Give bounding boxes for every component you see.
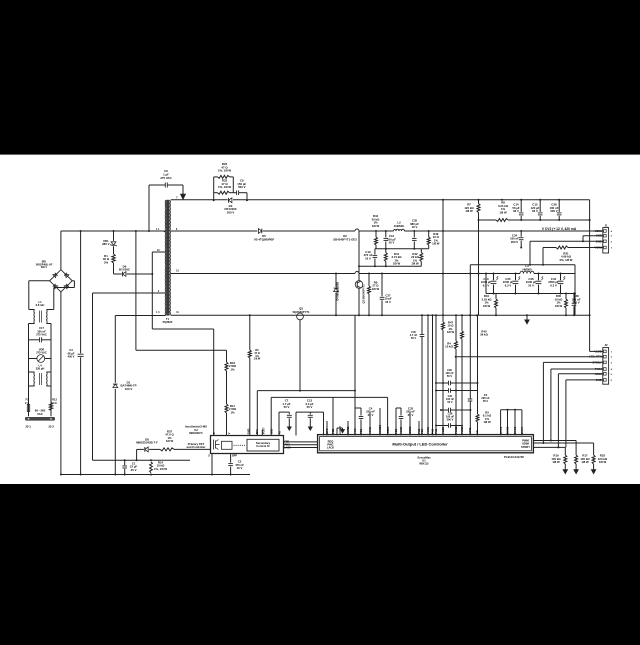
svg-text:J3-2: J3-2 bbox=[48, 424, 54, 428]
svg-text:CS: CS bbox=[475, 430, 479, 434]
wire: PWM net bbox=[550, 369, 603, 442]
svg-text:LACK: LACK bbox=[327, 445, 334, 449]
connector J3 input terminal block bbox=[25, 417, 55, 428]
capacitor C27 bbox=[380, 274, 392, 316]
svg-text:DCC3: DCC3 bbox=[513, 426, 517, 434]
wire: transformer pin2 return bbox=[93, 293, 165, 460]
wire: VLED feed from top rail bbox=[589, 200, 603, 352]
wire: LED_RTN to controller bbox=[455, 356, 603, 358]
svg-text:VCX3: VCX3 bbox=[426, 426, 430, 433]
svg-text:PGND: PGND bbox=[454, 426, 458, 434]
snubber capacitor C9 bbox=[213, 179, 248, 202]
wire: J1 GND feeds bbox=[530, 236, 603, 265]
resistor R49 bbox=[427, 231, 440, 249]
wire: filter middle rail bbox=[375, 248, 429, 250]
snubber resistor R22 bbox=[214, 162, 234, 200]
bulk capacitor C3 bbox=[68, 230, 84, 475]
zener D4 bbox=[334, 274, 340, 316]
svg-text:FB3: FB3 bbox=[420, 428, 424, 433]
capacitor C10 bbox=[481, 274, 498, 294]
connector J2 bbox=[589, 343, 613, 384]
svg-text:BPP: BPP bbox=[232, 455, 237, 458]
resistor R11 bbox=[225, 404, 237, 436]
IC U2 InnoSwitch3-MX bbox=[185, 425, 283, 458]
wire: J2 GND net bbox=[566, 380, 603, 448]
resistor R35 bbox=[555, 294, 568, 316]
wire: bridge + output to DC bus bbox=[60, 231, 62, 270]
capacitor C45 bbox=[410, 330, 425, 340]
ground symbol on secondary rail bbox=[525, 315, 530, 324]
capacitor C35 bbox=[410, 219, 419, 249]
common-mode choke L4 bbox=[29, 364, 52, 386]
wire: filter bottom tie bbox=[358, 265, 421, 267]
svg-text:AGND: AGND bbox=[338, 426, 342, 434]
svg-text:Primary FETand Controller: Primary FETand Controller bbox=[186, 442, 206, 449]
resistor R12 bbox=[49, 398, 57, 411]
resistor R1 bbox=[103, 254, 115, 274]
resistor R4 bbox=[445, 315, 457, 435]
wire: U2 source pin to ground rail bbox=[211, 454, 213, 475]
resistor R19 with ground bbox=[551, 447, 567, 473]
svg-text:D: D bbox=[213, 432, 216, 434]
svg-text:SGND: SGND bbox=[346, 426, 350, 434]
svg-text:CTRL: CTRL bbox=[468, 426, 472, 433]
wire: U2 to U1 feedback links bbox=[284, 442, 318, 450]
wire: ADIM net bbox=[557, 374, 602, 449]
wire: lower bias rail bbox=[93, 459, 191, 461]
svg-text:VCK3: VCK3 bbox=[594, 229, 602, 233]
diode D8 bbox=[136, 437, 160, 460]
resistor R9 bbox=[368, 274, 380, 316]
wire: controller top pin comb bbox=[257, 315, 419, 435]
svg-text:GND1: GND1 bbox=[386, 426, 390, 434]
svg-text:VCX1: VCX1 bbox=[368, 426, 372, 433]
resistor R47 bbox=[442, 200, 455, 436]
svg-text:BPS: BPS bbox=[256, 429, 259, 434]
svg-text:F12 A: F12 A bbox=[25, 398, 29, 405]
resistor R44 bbox=[372, 214, 380, 249]
resistor R14 bbox=[150, 460, 168, 473]
capacitor C13 with ground bbox=[296, 399, 324, 436]
wire: cap bottom rail bbox=[486, 265, 576, 315]
svg-text:VCK3: VCK3 bbox=[594, 246, 602, 250]
svg-text:DCC2: DCC2 bbox=[506, 426, 510, 434]
svg-text:FB1: FB1 bbox=[359, 428, 363, 433]
wire: secondary top rail (VLED bus) bbox=[171, 199, 590, 201]
svg-text:SecondaryControl IC: SecondaryControl IC bbox=[256, 441, 271, 448]
wire: rung 390.5 bbox=[435, 388, 478, 393]
resistor R10 bbox=[481, 294, 497, 316]
svg-text:ADIM: ADIM bbox=[522, 441, 530, 445]
capacitor C33 bbox=[396, 406, 415, 435]
capacitor C6 bbox=[149, 169, 183, 231]
bridge rectifier BR1 bbox=[36, 261, 73, 292]
wire: VCV1 sense column bbox=[469, 265, 471, 436]
capacitor C7 with ground bbox=[279, 399, 292, 436]
capacitor C29 bbox=[435, 368, 479, 385]
common-mode choke L1 bbox=[29, 300, 54, 324]
svg-text:VLED: VLED bbox=[441, 427, 445, 434]
svg-text:PWC: PWC bbox=[285, 444, 291, 446]
wire: upper feedback route bbox=[136, 231, 227, 350]
resistor R6 bbox=[248, 314, 261, 435]
capacitor C14 bbox=[512, 200, 523, 220]
resistor R42 bbox=[411, 249, 423, 267]
resistor R40 bbox=[461, 315, 489, 435]
resistor R41 bbox=[384, 249, 402, 267]
svg-text:J3-1: J3-1 bbox=[25, 424, 31, 428]
svg-text:GND2: GND2 bbox=[408, 426, 412, 434]
transformer T1 bbox=[156, 196, 180, 323]
svg-text:GND: GND bbox=[596, 234, 602, 238]
resistor R7 bbox=[464, 200, 480, 315]
wire: primary ground bottom rail bbox=[60, 474, 250, 476]
svg-text:FBD: FBD bbox=[285, 442, 290, 444]
wire: AC input ladder right leg bbox=[51, 281, 74, 417]
resistor R37 bbox=[160, 429, 211, 451]
wire: VCV1 upper rail bbox=[470, 264, 575, 266]
svg-text:GND: GND bbox=[270, 429, 273, 435]
wire: transformer pin stubs bbox=[152, 232, 165, 316]
wire: AC input ladder left leg bbox=[29, 281, 50, 417]
capacitor C34 bbox=[510, 231, 523, 248]
resistor R17 with ground bbox=[574, 441, 591, 474]
wire: C6 drop arrow to pin7 bbox=[180, 185, 185, 200]
svg-text:VR1280 V: VR1280 V bbox=[102, 239, 110, 246]
varistor VDR bbox=[29, 347, 52, 362]
capacitor C19 bbox=[364, 249, 378, 267]
svg-text:GND: GND bbox=[596, 239, 602, 243]
capacitor C2 bbox=[228, 454, 244, 475]
wire: U1 right side nets bbox=[533, 441, 593, 448]
capacitor C15 bbox=[531, 200, 543, 220]
svg-text:SGND1: SGND1 bbox=[378, 424, 382, 433]
resistor R3 bbox=[476, 315, 492, 435]
svg-text:LACK: LACK bbox=[285, 446, 292, 449]
svg-text:FB2: FB2 bbox=[394, 428, 398, 433]
svg-text:Multi-Output / LED Controller: Multi-Output / LED Controller bbox=[392, 441, 448, 446]
schematic white sheet bbox=[0, 155, 640, 484]
wire: DCC bus bbox=[501, 409, 522, 436]
svg-text:J2: J2 bbox=[604, 343, 608, 347]
resistor R23b with ground bbox=[591, 443, 608, 474]
U1 top pin labels bbox=[325, 424, 524, 433]
svg-text:FB: FB bbox=[278, 431, 281, 435]
svg-text:Q2 SB4240FYT1: Q2 SB4240FYT1 bbox=[363, 284, 366, 304]
svg-text:VCX2: VCX2 bbox=[399, 426, 403, 433]
transistor Q2 bbox=[355, 231, 365, 315]
resistor R16 bbox=[225, 350, 237, 404]
svg-text:PX3: PX3 bbox=[431, 428, 435, 433]
capacitor C5 bbox=[468, 393, 490, 403]
svg-text:D4 MMSZ5250B: D4 MMSZ5250B bbox=[337, 282, 340, 301]
connector J1 bbox=[594, 223, 612, 253]
capacitor C1 bbox=[122, 460, 137, 474]
diode D5 bbox=[254, 229, 275, 242]
capacitor C4 bbox=[355, 406, 375, 435]
wire: secondary ground rail bbox=[171, 314, 590, 316]
capacitor C17 bbox=[29, 326, 52, 342]
transistor Q3 bbox=[292, 307, 310, 391]
diode D3 bbox=[224, 198, 236, 215]
wire: bridge - return to primary ground rail bbox=[60, 292, 62, 475]
capacitor C28 bbox=[550, 200, 562, 220]
capacitor C36 bbox=[435, 412, 463, 428]
capacitor C25 bbox=[503, 274, 520, 294]
wire: DC+ bus rail (primary) bbox=[61, 230, 165, 232]
inductor L2 bbox=[393, 221, 404, 231]
wire: secondary mid rail (pin13) bbox=[171, 272, 575, 275]
ground pin arrow at controller bbox=[337, 428, 345, 436]
svg-text:PX2: PX2 bbox=[434, 428, 438, 433]
svg-text:PGND: PGND bbox=[460, 426, 464, 434]
wire: bias winding route down to primary IC bbox=[152, 252, 213, 436]
svg-text:BPS: BPS bbox=[325, 428, 329, 434]
zener VR1 bbox=[102, 231, 117, 254]
svg-text:FBD: FBD bbox=[331, 428, 335, 433]
svg-text:PI-9113-041720: PI-9113-041720 bbox=[504, 455, 524, 459]
inductor L3 bbox=[520, 264, 534, 274]
wire: sense divider columns bbox=[422, 315, 436, 435]
fuse F1 bbox=[25, 398, 30, 412]
wire: +12V output rail bbox=[171, 229, 603, 232]
capacitor C31 bbox=[440, 394, 471, 413]
capacitor C44 bbox=[548, 274, 565, 294]
IC U1 SenseMax Multi-Output LED Controller bbox=[318, 435, 534, 466]
resistor R8 bbox=[496, 201, 509, 222]
capacitor C12 bbox=[384, 231, 397, 249]
svg-text:STDBY: STDBY bbox=[521, 445, 530, 449]
svg-text:FWD: FWD bbox=[247, 428, 250, 434]
capacitor C38 bbox=[572, 294, 581, 316]
svg-text:DCC1: DCC1 bbox=[499, 426, 503, 434]
wire: R7/R8 lower rail bbox=[478, 219, 591, 221]
wire: STDBY net bbox=[542, 362, 602, 444]
capacitor C26 bbox=[526, 274, 543, 294]
svg-text:J1: J1 bbox=[604, 223, 608, 227]
svg-text:V CV2 (+ 12 V, 420 mA: V CV2 (+ 12 V, 420 mA bbox=[542, 227, 577, 231]
snubber resistor R23 bbox=[214, 179, 237, 195]
diode D1 bbox=[113, 316, 165, 475]
svg-text:VCC: VCC bbox=[353, 428, 357, 434]
svg-text:DCC4: DCC4 bbox=[520, 426, 524, 434]
diode D6 bbox=[114, 264, 154, 276]
resistor R31 bbox=[520, 246, 603, 265]
